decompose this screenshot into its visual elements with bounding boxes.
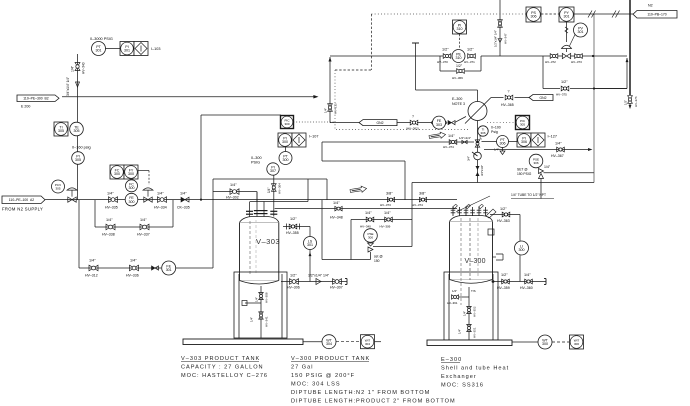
wire platform to WT-304	[303, 341, 322, 343]
valve HV-369	[452, 64, 464, 80]
V-300 drain internal	[468, 287, 470, 340]
svg-text:HV–376: HV–376	[634, 96, 638, 107]
reducer on x500	[498, 39, 502, 43]
wire E-300 feed top	[412, 43, 478, 102]
svg-text:HV–304: HV–304	[278, 183, 282, 194]
instrument WT-304	[322, 335, 336, 349]
valve HV-340b	[360, 211, 374, 229]
svg-text:Exchanger: Exchanger	[441, 374, 477, 380]
svg-text:HV–374: HV–374	[443, 145, 454, 149]
wire x371.5 disc down	[370, 252, 372, 260]
svg-text:1/2": 1/2"	[290, 274, 297, 278]
svg-text:HV–338: HV–338	[102, 233, 115, 237]
valve HV-373	[380, 192, 395, 208]
svg-text:NOTE 3: NOTE 3	[452, 102, 465, 106]
ball valve x478	[472, 152, 481, 160]
wire x308 drop	[307, 179, 309, 202]
hose end bracket	[345, 279, 347, 285]
svg-text:1/4": 1/4"	[255, 297, 259, 302]
label E 200	[21, 105, 30, 109]
svg-text:1/4": 1/4"	[448, 134, 455, 138]
reducer D on bridle	[76, 82, 80, 87]
svg-text:MOC: 304 LSS: MOC: 304 LSS	[291, 382, 341, 388]
svg-text:HV–355: HV–355	[286, 231, 299, 235]
label 0-300 PSIG	[251, 156, 262, 165]
svg-text:?: ?	[412, 115, 414, 119]
wire tank top manifold y201.5	[250, 201, 308, 203]
svg-text:301: 301	[166, 268, 172, 272]
instrument PS-306	[526, 7, 541, 22]
svg-text:HV–348: HV–348	[330, 215, 343, 219]
svg-text:1/4": 1/4"	[324, 108, 328, 113]
svg-text:304: 304	[326, 342, 332, 346]
valve HV-334	[154, 192, 167, 210]
wire x541 vent down	[540, 179, 542, 199]
valve HV-347 (vertical)	[498, 20, 503, 28]
label 3/4x1/4 rotated	[66, 77, 70, 96]
svg-text:301: 301	[124, 49, 130, 53]
signal dashed interlock y14	[372, 13, 527, 15]
signal dotted x335	[334, 70, 336, 130]
wire x627 up arrow	[626, 58, 629, 89]
svg-text:0–300: 0–300	[251, 156, 262, 160]
svg-text:1/4": 1/4"	[458, 329, 462, 334]
svg-text:1/2"x1/4" 1/4": 1/2"x1/4" 1/4"	[308, 274, 330, 278]
wire manifold line y179	[213, 178, 327, 180]
slope arrow 2	[429, 131, 446, 140]
hose end bracket V-300	[544, 279, 546, 285]
interlock I-107 diamond	[292, 133, 306, 147]
fitting on y142	[462, 140, 467, 143]
wire line y142	[322, 141, 474, 143]
svg-text:305: 305	[74, 129, 80, 133]
valve HV-310 (vertical)	[328, 104, 333, 112]
instrument WT-300	[538, 335, 552, 349]
svg-text:HV–341: HV–341	[265, 316, 269, 327]
label SET 150 PSIG	[517, 168, 532, 177]
svg-text:1/2": 1/2"	[290, 217, 297, 221]
svg-text:T/S: T/S	[471, 289, 476, 293]
valve HV-367	[551, 142, 564, 159]
valve HV-336	[126, 259, 139, 278]
svg-text:300: 300	[282, 140, 288, 144]
svg-text:110–PE–100 A2: 110–PE–100 A2	[9, 198, 35, 202]
wire nozzle x264	[263, 202, 265, 217]
instrument LS-301	[304, 237, 317, 250]
instrument PSE-306	[529, 154, 543, 168]
svg-text:HV–340: HV–340	[360, 225, 371, 229]
svg-text:1/2"x1/4" 1/4": 1/2"x1/4" 1/4"	[494, 30, 498, 47]
wire relief outlet y173	[544, 172, 595, 174]
svg-text:HV–337: HV–337	[137, 233, 150, 237]
instrument PT-300	[279, 152, 292, 165]
svg-text:HV–334: HV–334	[154, 206, 167, 210]
pipe tag GN2	[359, 120, 397, 126]
signal dotted PIC-300 right	[294, 121, 336, 123]
wire relief out y246.5	[373, 246, 412, 248]
svg-text:1/4": 1/4"	[89, 259, 96, 263]
label HV-310 rotated	[324, 103, 338, 114]
V-300 platform	[427, 340, 512, 346]
instrument FE-300 circle on line	[125, 193, 138, 206]
valve V-300 drain 1	[463, 306, 477, 317]
slope arrow 1	[350, 185, 367, 194]
vessel V-303 shell	[240, 217, 279, 285]
svg-text:310: 310	[456, 56, 462, 60]
svg-text:300: 300	[129, 200, 135, 204]
svg-text:0–3000 PSIG: 0–3000 PSIG	[90, 37, 113, 41]
valve HV-348	[330, 201, 343, 219]
wire platform to WT-300	[512, 341, 538, 343]
svg-text:150 PSIG @ 200°F: 150 PSIG @ 200°F	[291, 373, 355, 379]
svg-text:MOC: HASTELLOY C–276: MOC: HASTELLOY C–276	[181, 373, 268, 379]
pipe tag GN2 outlet	[529, 95, 553, 101]
label I-127	[548, 135, 558, 139]
check valve vertical x478	[476, 165, 485, 176]
arrow at end of line y97	[313, 95, 318, 99]
label HV-347 rotated	[494, 30, 508, 47]
V-303 skirt	[234, 272, 287, 338]
svg-text:Shell and tube Heat: Shell and tube Heat	[441, 366, 509, 372]
svg-text:303: 303	[436, 123, 442, 127]
svg-text:307: 307	[270, 169, 276, 173]
pipe tag 110-PE-100 A2	[2, 196, 45, 204]
wire V-303 drain y281.5	[281, 281, 347, 283]
V-300 bp stub	[447, 289, 476, 305]
svg-text:1/4": 1/4"	[333, 201, 340, 205]
label drain1 rotated	[255, 292, 269, 303]
nozzle leader diagonal	[456, 196, 490, 212]
label 1/2 HV-363	[497, 207, 510, 223]
svg-text:300: 300	[283, 158, 289, 162]
flange ticks nozzle 2 wide	[254, 211, 268, 214]
svg-text:1/2": 1/2"	[500, 207, 507, 211]
label ball valve rotated	[467, 156, 471, 161]
svg-text:306: 306	[521, 140, 527, 144]
instrument PIC-305	[516, 116, 530, 130]
arrow up into y56 line	[328, 57, 331, 61]
svg-text:1/4" TUBE TO 1/2" NPT: 1/4" TUBE TO 1/2" NPT	[511, 193, 546, 197]
capillary squiggle	[565, 27, 568, 33]
flow element FE-301	[162, 261, 177, 275]
svg-text:300: 300	[542, 342, 548, 346]
signal dashed WT-304 to WIT	[336, 341, 360, 343]
svg-text:304: 304	[365, 342, 370, 346]
label set @ 150	[374, 255, 383, 264]
wire GN2 line y122.6	[330, 122, 432, 124]
svg-text:1/4": 1/4"	[130, 259, 137, 263]
flow element FE-303	[431, 116, 447, 129]
svg-text:305: 305	[58, 129, 64, 133]
svg-text:HV–309: HV–309	[380, 225, 391, 229]
wire vent header x594	[593, 14, 595, 183]
junction dot y199.6 x201	[200, 199, 202, 201]
svg-text:301: 301	[578, 30, 584, 34]
label V-300	[465, 258, 486, 265]
junction dot	[492, 280, 495, 283]
wire y219.5 PSE row	[351, 219, 412, 221]
svg-text:HV–363: HV–363	[497, 219, 510, 223]
signal dashed PS to PY	[541, 13, 559, 15]
diptube dashed V-300	[461, 218, 478, 305]
wire PI-307 down	[273, 175, 275, 201]
label drain2 rotated	[250, 316, 269, 327]
label V-303	[256, 237, 280, 246]
svg-text:1/2"x1/4": 1/2"x1/4"	[459, 136, 471, 140]
V-303 platform	[183, 339, 303, 345]
label 1/4 near slope2	[448, 134, 455, 138]
svg-text:3/4"x1/2": 3/4"x1/2"	[480, 165, 484, 176]
valve V-303 drain 2 (vertical)	[259, 312, 263, 319]
valve HV-359	[497, 273, 510, 290]
V-300 skirt	[444, 272, 498, 340]
wire x520 down	[519, 215, 521, 282]
svg-text:HV–352: HV–352	[473, 306, 477, 317]
svg-text:N2: N2	[648, 4, 653, 8]
svg-text:300: 300	[114, 172, 120, 176]
text block E-300	[441, 357, 509, 389]
wire PI-305 column down to FE row	[79, 200, 161, 268]
interlock I-127 diamond	[531, 133, 545, 147]
svg-text:1/2": 1/2"	[456, 64, 463, 68]
label 1/4 HV-340 rotated	[71, 62, 86, 74]
valve HV-374b	[412, 192, 427, 208]
svg-text:305: 305	[55, 187, 60, 191]
valve HV-375	[556, 80, 569, 97]
svg-text:300: 300	[368, 236, 373, 240]
svg-text:306: 306	[480, 131, 485, 135]
exchanger E-300 shell	[465, 98, 491, 124]
wire PV-301 signal down	[566, 22, 568, 42]
wire y208.6 long line	[275, 208, 457, 210]
junction dot y142 x478	[476, 141, 478, 143]
svg-text:GN2: GN2	[540, 96, 547, 100]
node PT-301 bridle vertical	[77, 54, 79, 200]
svg-text:(HV–362): (HV–362)	[406, 127, 419, 131]
vent valve HV-376 (vertical)	[628, 96, 633, 104]
valve HV-371	[464, 48, 475, 65]
vent arrow down	[629, 104, 632, 110]
svg-text:HV–306: HV–306	[287, 286, 300, 290]
label 1/2 HV-355	[286, 217, 299, 235]
svg-text:1/4": 1/4"	[555, 142, 562, 146]
svg-text:HV–312: HV–312	[85, 274, 98, 278]
wire nozzle drop x257	[256, 192, 258, 202]
instrument PT-301	[92, 42, 106, 56]
svg-text:1/2": 1/2"	[561, 80, 568, 84]
svg-text:305: 305	[75, 158, 81, 162]
instrument WIT-304	[361, 335, 375, 349]
svg-text:306: 306	[500, 142, 506, 146]
svg-text:MOC: SS316: MOC: SS316	[441, 383, 484, 389]
svg-text:Psig: Psig	[491, 130, 498, 134]
label N2	[648, 4, 653, 8]
svg-text:1/4": 1/4"	[140, 218, 147, 222]
V-300 side nozzle box	[488, 229, 494, 235]
label E-300 NOTE 3	[452, 97, 465, 106]
valve HV-360	[520, 273, 533, 290]
wire elbow x327 down	[326, 179, 328, 200]
check valve after FE-303	[448, 121, 455, 125]
relief angle valve	[539, 165, 551, 179]
junction dot y88.5 x594	[593, 87, 595, 89]
wire riser x500 with valve	[499, 0, 501, 56]
svg-text:306: 306	[531, 15, 537, 19]
svg-text:V–303 PRODUCT TANK: V–303 PRODUCT TANK	[181, 356, 260, 362]
svg-text:HV–359: HV–359	[497, 286, 510, 290]
wire HV-302 line y191.6	[213, 191, 257, 193]
instrument PI-305	[72, 152, 85, 165]
wire WIT-304 stub right	[375, 341, 382, 343]
wire LS bridle x310	[309, 227, 311, 282]
wire HV-355 line	[283, 226, 310, 228]
svg-text:1/4": 1/4"	[463, 311, 467, 316]
wire PT-300 to PI-300	[285, 147, 287, 152]
pipe tag 110-PE-300 B2	[17, 95, 59, 102]
wire riser x213	[212, 179, 214, 268]
valve V-300 drain 2	[458, 324, 477, 338]
instrument PSE-300	[364, 229, 378, 243]
leader PV-301 to valve	[569, 35, 576, 49]
interlock I-103 diamond	[134, 42, 148, 56]
strainer under PT-306	[494, 148, 505, 155]
svg-text:E 200: E 200	[21, 105, 30, 109]
instrument PI-300	[278, 133, 292, 147]
svg-text:HV–336: HV–336	[126, 274, 139, 278]
svg-text:1/4": 1/4"	[524, 273, 531, 277]
valve HV-362	[406, 115, 419, 131]
bypass box PE-310	[440, 56, 481, 71]
instrument PI-306	[517, 133, 531, 147]
wire main line y97	[62, 96, 316, 98]
svg-text:set @: set @	[374, 255, 383, 259]
pipe tag 110-PB-170	[633, 11, 677, 19]
svg-text:E–300: E–300	[452, 97, 462, 101]
valve HV-307 drain	[330, 279, 343, 290]
bypass box PV-301	[543, 56, 627, 89]
svg-text:1/4": 1/4"	[71, 65, 75, 72]
svg-text:300: 300	[129, 186, 135, 190]
svg-text:1/2": 1/2"	[442, 48, 449, 52]
wire PT-306 to PI-306	[509, 141, 518, 143]
check valve small before FE-301	[152, 266, 159, 270]
label 1/4 rotated at PI-307 valve	[267, 183, 282, 194]
svg-text:150: 150	[374, 259, 380, 263]
svg-text:HV–373: HV–373	[380, 203, 391, 207]
V-303 drain pipe	[260, 286, 262, 338]
svg-text:HV–369: HV–369	[452, 76, 463, 80]
label I-103	[151, 47, 161, 51]
svg-text:HV–307: HV–307	[330, 286, 343, 290]
svg-text:V–303: V–303	[256, 237, 280, 246]
instrument WIT-300	[570, 335, 584, 349]
instrument TI-305	[54, 122, 68, 136]
wire y141.5 to PT-306	[482, 141, 497, 143]
wire x322 aux line	[321, 200, 323, 260]
signal dashed PI-310 to PE-310	[459, 34, 461, 49]
svg-text:GN2: GN2	[377, 121, 384, 125]
wire diagonal into E-300	[455, 117, 467, 123]
wire PT-301 to PI-301	[106, 48, 121, 50]
arrow into vent header	[588, 148, 592, 151]
svg-text:FROM N2 SUPPLY: FROM N2 SUPPLY	[2, 207, 43, 212]
label 1/2x1/4 on y142	[459, 136, 471, 140]
valve HV-355 tube fitting	[287, 224, 300, 230]
svg-text:1/4": 1/4"	[107, 192, 114, 196]
signal dotted y129.5	[336, 129, 468, 131]
svg-text:1/2": 1/2"	[501, 273, 508, 277]
svg-text:V–300 PRODUCT TANK: V–300 PRODUCT TANK	[291, 356, 370, 362]
svg-text:1/4": 1/4"	[384, 211, 391, 215]
valve HV-370	[437, 48, 451, 65]
label 0-100 Psig	[491, 126, 501, 134]
svg-text:110–PB–170: 110–PB–170	[647, 13, 666, 17]
wire x351	[350, 220, 352, 260]
control valve FV-300	[143, 188, 153, 202]
wire FY-300 to FV-300	[138, 171, 149, 186]
reducer D drain	[316, 279, 321, 285]
valve HV-306	[287, 274, 300, 290]
svg-text:HV–351: HV–351	[473, 327, 477, 338]
wire nozzle x257	[256, 192, 258, 217]
V-300 nozzle stubs	[451, 204, 488, 216]
wire to GN2 tag	[515, 97, 530, 99]
instrument FY-300 square	[124, 165, 138, 179]
wire y149.5 relief header	[484, 149, 591, 151]
svg-text:1/4": 1/4"	[544, 165, 551, 169]
svg-text:150 PSIG: 150 PSIG	[517, 172, 532, 176]
instrument PT-306	[497, 136, 509, 148]
svg-text:HV–347: HV–347	[504, 33, 508, 44]
check valve CK-335	[177, 192, 190, 210]
control valve PV-301	[562, 45, 572, 58]
svg-text:1/2": 1/2"	[452, 289, 457, 293]
svg-text:I–103: I–103	[151, 47, 161, 51]
wire x478 column	[477, 121, 479, 183]
valve HV-335	[105, 192, 118, 210]
flange ticks nozzle 3	[270, 211, 277, 214]
svg-text:306: 306	[533, 161, 538, 165]
wire nozzle x249.5	[249, 202, 251, 217]
svg-text:110–PE–300 B2: 110–PE–300 B2	[23, 97, 49, 101]
label 1/2x1/4 1/4	[308, 274, 330, 278]
instrument LI-300	[515, 241, 529, 255]
junction dot y56 x593	[592, 55, 594, 57]
instrument TE-305	[70, 122, 84, 136]
wire y259.5	[322, 259, 371, 261]
wire vent note underline	[511, 198, 554, 200]
control valve PCV-305 body	[67, 188, 77, 202]
svg-text:I–107: I–107	[309, 135, 319, 139]
svg-text:1/4": 1/4"	[230, 183, 237, 187]
wire nozzle x273.8	[273, 202, 275, 217]
valve HV-373b	[571, 54, 582, 64]
svg-text:1/2": 1/2"	[467, 48, 474, 52]
svg-text:HV–335: HV–335	[105, 206, 118, 210]
wire bypass below main line	[95, 200, 173, 227]
instrument PE-310	[452, 50, 465, 63]
svg-text:HV–367: HV–367	[551, 154, 564, 158]
valve HV-338	[102, 218, 115, 237]
svg-text:HV–375: HV–375	[556, 93, 567, 97]
wire FE-301 to riser	[176, 267, 213, 269]
svg-text:0–160 psig: 0–160 psig	[72, 146, 91, 150]
svg-text:CK–335: CK–335	[177, 206, 190, 210]
text block V-300	[291, 356, 456, 405]
wire x412 column	[411, 183, 413, 247]
label HV-376 rotated	[624, 96, 639, 107]
svg-text:1/2": 1/2"	[624, 100, 628, 105]
